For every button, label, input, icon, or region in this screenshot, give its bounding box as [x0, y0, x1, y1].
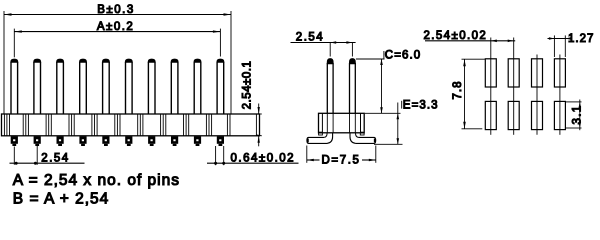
svg-text:3.1: 3.1: [571, 105, 583, 125]
smd lead right: [350, 133, 376, 144]
column centerline 4: [559, 55, 561, 135]
pin 3: [57, 59, 64, 114]
dimension C=6.0: [356, 50, 421, 114]
svg-text:7.8: 7.8: [452, 81, 464, 100]
column centerline 2: [513, 38, 515, 135]
pin 4: [80, 59, 87, 114]
smd body: [319, 113, 365, 133]
smd pedestal left: [319, 132, 323, 135]
dimension 2.54±0.1 (body height, right side): [242, 61, 262, 147]
pin 6: [125, 59, 132, 114]
pad top row 2: [508, 59, 519, 87]
pad bottom row 3: [532, 101, 543, 129]
dimension 2.54 (pin pitch, bottom left): [10, 145, 85, 165]
pad bottom row 1: [485, 101, 496, 129]
pin 9: [194, 59, 201, 114]
dimension D=7.5: [307, 146, 376, 167]
dimension 3.1 (pad height, right): [566, 100, 584, 131]
pad top row 1: [485, 59, 496, 87]
svg-text:2.54: 2.54: [41, 152, 69, 164]
dimension B±0.3: [4, 4, 231, 114]
svg-text:1.27: 1.27: [568, 33, 594, 45]
tail 3: [57, 137, 64, 147]
pad bottom row 4: [554, 101, 565, 129]
pad top row 4: [554, 59, 565, 87]
tail 6: [125, 137, 132, 147]
dimension 0.64±0.02 (tail width, bottom right): [207, 146, 299, 165]
dimension A±0.2: [14, 21, 220, 57]
svg-text:B±0.3: B±0.3: [97, 4, 134, 16]
dimension E=3.3: [374, 100, 439, 145]
svg-text:C=6.0: C=6.0: [385, 50, 422, 62]
pin 5: [102, 59, 109, 114]
column centerline 3: [536, 55, 538, 135]
svg-text:B = A + 2,54: B = A + 2,54: [13, 190, 109, 207]
smd pin right: [349, 59, 355, 114]
tail 9: [194, 137, 201, 147]
dimension 7.8 (row span, left): [452, 59, 485, 129]
pin 2: [34, 59, 41, 114]
column centerline 1: [490, 38, 492, 135]
smd pin left: [327, 59, 333, 114]
dimension 2.54±0.02 (pad pitch): [424, 30, 516, 42]
tail 2: [34, 137, 41, 147]
svg-text:0.64±0.02: 0.64±0.02: [231, 152, 296, 164]
tail 4: [79, 137, 86, 147]
svg-text:D=7.5: D=7.5: [322, 154, 361, 166]
svg-text:A = 2,54 x no. of pins: A = 2,54 x no. of pins: [13, 172, 180, 189]
svg-text:2.54: 2.54: [296, 31, 324, 43]
tail 10: [217, 137, 224, 147]
tail 5: [102, 137, 109, 147]
tail 1: [11, 137, 18, 147]
tail 7: [148, 137, 155, 147]
smd lead left: [307, 133, 333, 144]
pin 10: [217, 59, 224, 114]
pad bottom row 2: [508, 101, 519, 129]
svg-text:2.54±0.02: 2.54±0.02: [424, 30, 488, 42]
dimension 2.54 (smd pin pitch): [291, 31, 356, 56]
svg-text:E=3.3: E=3.3: [403, 100, 439, 112]
pad top row 3: [532, 59, 543, 87]
smd pedestal right: [360, 132, 364, 135]
svg-text:2.54±0.1: 2.54±0.1: [242, 61, 254, 110]
pin 1: [11, 59, 18, 114]
body divider lines: [7, 114, 230, 136]
svg-text:A±0.2: A±0.2: [97, 21, 134, 33]
pin 7: [148, 59, 155, 114]
body: [2, 114, 260, 136]
pin 8: [171, 59, 178, 114]
tail 8: [171, 137, 178, 147]
dimension 1.27 (pad width): [548, 33, 595, 57]
